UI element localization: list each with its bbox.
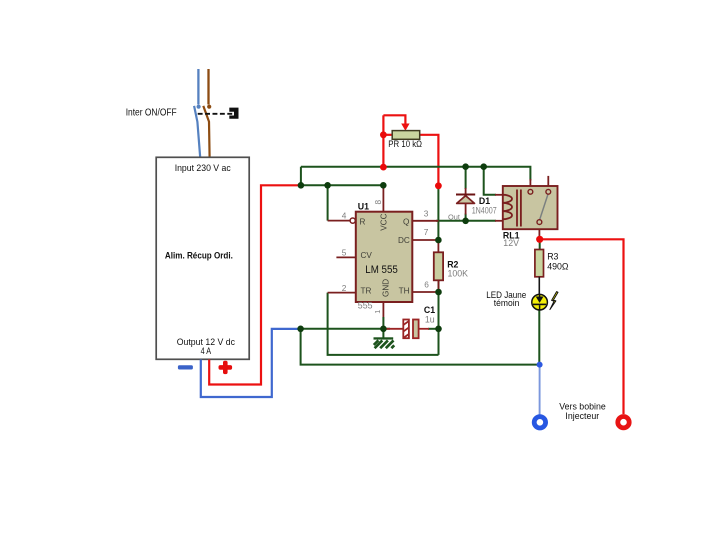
svg-text:PR 10 kΩ: PR 10 kΩ: [388, 139, 422, 149]
svg-text:1u: 1u: [425, 314, 435, 324]
svg-text:R: R: [360, 217, 366, 226]
svg-text:VCC: VCC: [379, 213, 388, 230]
svg-text:8: 8: [373, 200, 383, 205]
svg-text:LM 555: LM 555: [365, 264, 398, 276]
svg-text:5: 5: [342, 247, 347, 257]
svg-text:4: 4: [342, 211, 347, 221]
svg-text:4 A: 4 A: [201, 346, 212, 357]
svg-text:100K: 100K: [448, 269, 469, 279]
svg-text:1: 1: [375, 310, 382, 314]
svg-text:GND: GND: [382, 279, 391, 297]
svg-text:490Ω: 490Ω: [547, 262, 569, 272]
svg-text:Vers bobine: Vers bobine: [559, 402, 606, 412]
svg-text:Input 230 V ac: Input 230 V ac: [175, 163, 231, 174]
svg-text:U1: U1: [358, 202, 369, 212]
svg-text:Alim. Récup Ordi.: Alim. Récup Ordi.: [165, 251, 233, 262]
svg-text:1N4007: 1N4007: [472, 206, 497, 216]
svg-text:Q: Q: [403, 217, 409, 226]
svg-text:Injecteur: Injecteur: [565, 411, 599, 421]
svg-text:D1: D1: [479, 196, 490, 206]
svg-text:témoin: témoin: [494, 298, 520, 308]
svg-text:TR: TR: [361, 286, 372, 295]
svg-text:Inter ON/OFF: Inter ON/OFF: [126, 107, 177, 118]
svg-text:2: 2: [342, 283, 347, 293]
svg-text:CV: CV: [361, 251, 373, 260]
svg-text:555: 555: [358, 301, 373, 311]
svg-text:3: 3: [424, 209, 429, 219]
svg-text:TH: TH: [399, 286, 410, 295]
svg-text:7: 7: [424, 227, 429, 237]
svg-text:Out: Out: [448, 212, 460, 221]
svg-text:R3: R3: [547, 252, 558, 262]
svg-text:DC: DC: [398, 236, 410, 245]
svg-text:12V: 12V: [503, 238, 519, 248]
svg-text:6: 6: [424, 279, 429, 289]
